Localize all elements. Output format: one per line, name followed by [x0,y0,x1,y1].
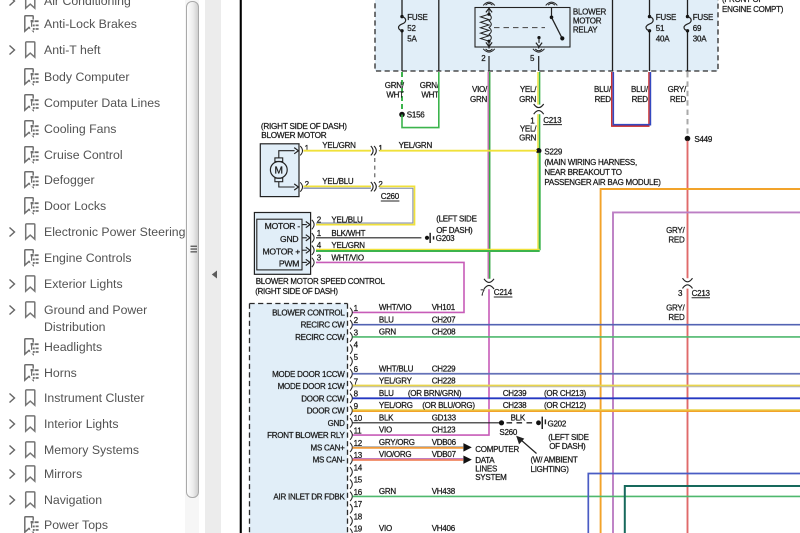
svg-text:1: 1 [354,304,359,313]
svg-text:(LEFT SIDE: (LEFT SIDE [436,215,476,224]
svg-text:BLK: BLK [511,414,526,423]
svg-text:GND: GND [280,234,298,244]
svg-text:CH208: CH208 [432,328,456,337]
svg-text:17: 17 [354,500,363,509]
wire GRN row16 (VH438) [353,495,800,497]
svg-text:FUSE: FUSE [656,13,676,22]
svg-text:NEAR BREAKOUT TO: NEAR BREAKOUT TO [544,168,621,177]
wire YEL/GRN from relay pin5 (dual) [537,72,539,105]
svg-text:WHT/VIO: WHT/VIO [379,303,411,312]
wire GRN/WHT dashed drop to S156 [401,72,403,112]
svg-text:VIO: VIO [379,426,392,435]
svg-text:CH207: CH207 [432,315,456,324]
relay pin 3 connector arcs (top) [546,2,558,5]
svg-text:40A: 40A [656,35,670,44]
svg-text:MS CAN-: MS CAN- [313,456,346,465]
svg-text:14: 14 [354,463,363,472]
ground G202 [536,420,541,425]
svg-text:(RIGHT SIDE OF DASH): (RIGHT SIDE OF DASH) [255,287,338,296]
svg-text:2: 2 [354,316,359,325]
svg-text:(LEFT SIDE: (LEFT SIDE [548,433,588,442]
motor symbol M [270,162,287,179]
svg-text:MOTOR +: MOTOR + [263,246,301,256]
svg-text:RED: RED [668,313,685,322]
blower control pin 14 arc [350,467,352,476]
svg-text:WHT: WHT [386,91,404,100]
svg-text:MODE DOOR 1CW: MODE DOOR 1CW [278,382,346,391]
wire GRY/ORG row12 (VDB06) [353,445,464,447]
svg-text:G202: G202 [548,420,567,429]
wire WHT/BLU row6 (CH229) [353,373,800,375]
wire YEL/GRN motor pin1 to C260 [303,150,371,152]
svg-text:GRY/ORG: GRY/ORG [379,438,415,447]
svg-text:FUSE: FUSE [407,13,427,22]
svg-text:MOTOR: MOTOR [573,17,602,26]
relay switch common from pin 3 [551,8,553,18]
svg-text:LIGHTING): LIGHTING) [531,465,570,474]
wire BLU row2 (CH207) [353,324,800,326]
wire relay pin2 stub (black, in fusebox) [488,47,490,49]
svg-text:YEL/BLU: YEL/BLU [331,216,363,225]
motor pin 2 arrow and arc [294,184,298,190]
svg-text:GRN: GRN [519,95,537,104]
blower motor box [260,144,299,197]
svg-text:CH238: CH238 [503,401,527,410]
panel collapse gutter [205,0,221,533]
wire BLU L-path bottom right [588,474,800,533]
svg-text:69: 69 [693,24,702,33]
blower control pin 15 arc [350,479,352,488]
wire YEL/GRY row7 (CH228) [353,385,800,387]
svg-text:15: 15 [354,476,363,485]
motor internal wiring to pins [279,151,295,158]
relay pin 5 connector arcs (bottom) [533,49,545,52]
splice S156 [399,112,405,118]
svg-text:GRY/: GRY/ [668,85,687,94]
blower control pin 2 arc [350,320,352,329]
connector C260 pin 2 [371,182,373,191]
blower control dashed border [250,303,348,305]
svg-text:YEL/GRN: YEL/GRN [322,141,356,150]
svg-text:C260: C260 [381,192,400,201]
svg-text:RED: RED [670,95,687,104]
svg-text:FRONT BLOWER RLY: FRONT BLOWER RLY [267,431,345,440]
blower control pin 18 arc [350,516,352,525]
wire YEL/GRN S229 down to speed control pin4 [537,153,539,250]
svg-text:S229: S229 [544,148,562,157]
svg-text:BLU: BLU [379,389,394,398]
svg-text:MS CAN+: MS CAN+ [311,443,346,452]
blower control pin 19 arc [350,529,352,533]
svg-text:3: 3 [354,328,359,337]
sidebar navigation panel [0,0,186,533]
relay pin 1 connector arcs (top) [483,2,495,5]
wire YEL/BLU C260 loop to speed control pin2 [316,186,415,224]
wire VIO/GRN from relay pin2 (dual) [487,72,489,279]
wire VIO/ORG row13 (VDB07) [353,458,464,460]
wire GRY/RED solid down to C213 pin3 [687,141,689,278]
svg-text:GRN: GRN [519,134,537,143]
relay actuation dashed link [494,27,545,29]
wire TEAL L-path bottom right [625,486,800,533]
relay coil arrow to pin 2 (down) [488,41,490,45]
svg-text:(OR BRN/GRN): (OR BRN/GRN) [408,389,462,398]
svg-text:(RIGHT SIDE OF DASH): (RIGHT SIDE OF DASH) [261,122,347,131]
svg-text:BLU/: BLU/ [631,85,649,94]
svg-text:VH406: VH406 [432,524,456,533]
svg-text:OF DASH): OF DASH) [549,442,586,451]
svg-text:18: 18 [354,512,363,521]
svg-text:MOTOR -: MOTOR - [265,221,301,231]
blower control pin 13 arc [350,455,352,464]
svg-text:RED: RED [595,95,612,104]
svg-text:BLOWER: BLOWER [573,8,607,17]
wire BLK row10 (GD133) to S260 [353,422,500,424]
svg-text:VH438: VH438 [432,487,456,496]
svg-text:10: 10 [354,414,363,423]
blower control pin 10 arc [350,418,352,427]
splice S260 [499,420,504,425]
svg-text:MODE DOOR 1CCW: MODE DOOR 1CCW [272,370,345,379]
blower control pin 1 arc [350,308,352,317]
svg-text:16: 16 [354,488,363,497]
svg-text:VDB07: VDB07 [432,450,457,459]
wire VIO C214 down to blower control pin11 [353,289,490,435]
connector C214 (inline) [484,279,494,283]
svg-text:5A: 5A [407,35,417,44]
svg-text:7: 7 [480,288,485,297]
collapse arrow [211,270,218,279]
wire YEL/GRN C260 to S229 [379,150,537,152]
blower control pin 16 arc [350,492,352,501]
computer data lines arrow row12 [463,443,471,451]
svg-text:DOOR CW: DOOR CW [307,407,346,416]
svg-text:VIO: VIO [379,524,392,533]
svg-text:YEL/GRN: YEL/GRN [399,141,433,150]
svg-text:C214: C214 [494,288,513,297]
relay coil (zigzag + scallops) [481,14,490,41]
wire YEL/GRN between C213 and S229 [537,114,539,149]
svg-text:52: 52 [407,24,416,33]
svg-text:PWM: PWM [279,258,299,268]
svg-text:2: 2 [378,180,383,189]
wire GRY/RED feed of fuse69 (black in fusebox) [687,0,689,17]
svg-text:GD133: GD133 [432,413,457,422]
svg-text:RECIRC CCW: RECIRC CCW [295,333,345,342]
svg-text:S449: S449 [694,135,712,144]
wire VIO (plum) horizontal from right edge [613,212,800,533]
svg-text:BLU: BLU [379,315,394,324]
svg-text:5: 5 [354,353,359,362]
svg-text:GRN: GRN [379,487,397,496]
svg-text:S156: S156 [407,111,425,120]
svg-text:AIR INLET DR FDBK: AIR INLET DR FDBK [273,492,345,501]
wire GRN/WHT loop S156 to fusebox [402,72,439,128]
svg-text:GRN: GRN [379,328,397,337]
svg-text:4: 4 [354,341,359,350]
C260 dashed divider [374,158,376,180]
svg-text:WHT: WHT [421,91,439,100]
wire WHT/VIO speed control pin3 loop to blower control pin1 [316,262,464,312]
svg-text:VDB06: VDB06 [432,438,457,447]
blower motor speed control outer box [254,213,310,275]
scrollbar track [185,0,199,533]
relay switch output contact arrow to pin 5 [537,36,540,39]
svg-text:BLOWER CONTROL: BLOWER CONTROL [272,308,345,317]
scrollbar grip [190,245,198,254]
svg-text:YEL/: YEL/ [520,124,537,133]
svg-text:BLOWER MOTOR SPEED CONTROL: BLOWER MOTOR SPEED CONTROL [256,277,386,286]
svg-text:YEL/ORG: YEL/ORG [379,401,413,410]
svg-text:C213: C213 [692,289,711,298]
wire fuse52 feed (black, in fusebox) [401,0,403,17]
relay coil arrow to pin 1 (up) [488,9,490,14]
wire BLU/RED 1 (black in fusebox) [612,0,614,71]
wire ORG horizontal from right edge [601,189,800,533]
wire GRY/RED dashed (not used option) [687,72,689,136]
svg-text:GRY/: GRY/ [666,303,685,312]
svg-text:SYSTEM: SYSTEM [475,473,507,482]
svg-text:GRN/: GRN/ [385,81,405,90]
connector C213 pin3 (inline) [683,278,693,282]
svg-text:(FRONT OF: (FRONT OF [722,0,764,4]
relay pin 2 connector arcs (bottom) [483,49,495,52]
wire BLK/WHT to ground G203 [316,237,421,239]
svg-text:WHT/BLU: WHT/BLU [379,364,414,373]
svg-text:(MAIN WIRING HARNESS,: (MAIN WIRING HARNESS, [544,158,637,167]
wire YEL/BLU motor pin2 to C260 [303,185,371,187]
wire relay pin5 stub (black, in fusebox) [538,47,540,49]
svg-text:BLK: BLK [379,413,394,422]
svg-text:YEL/GRN: YEL/GRN [331,241,365,250]
svg-text:30A: 30A [693,35,707,44]
svg-text:YEL/GRY: YEL/GRY [379,377,413,386]
svg-text:GRY/: GRY/ [666,226,685,235]
svg-text:CH123: CH123 [432,426,456,435]
svg-text:RED: RED [632,95,649,104]
blower control pin 6 arc [350,369,352,378]
blower control pin 17 arc [350,504,352,513]
svg-text:VH101: VH101 [432,303,456,312]
svg-text:OF DASH): OF DASH) [436,226,473,235]
svg-text:GRN: GRN [470,95,488,104]
wire BLU/RED U-loop below fusebox [612,72,649,126]
blower control pin 8 arc [350,394,352,403]
computer data lines arrow row13 [463,455,471,463]
wire BLU/RED 2 feed of fuse51 (black in fusebox) [649,0,651,17]
svg-text:YEL/BLU: YEL/BLU [322,177,354,186]
fuse F69 [686,15,689,18]
svg-text:VIO/ORG: VIO/ORG [379,450,412,459]
svg-text:11: 11 [354,427,363,436]
svg-text:M: M [275,165,284,176]
svg-text:BLOWER MOTOR: BLOWER MOTOR [261,131,326,140]
splice S229 [536,148,542,154]
speed control inner box [257,219,302,270]
blower control pin 4 arc [350,345,352,354]
svg-text:1: 1 [317,229,322,238]
blower control pin 9 arc [350,406,352,415]
wire BLU row8 (CH239) [353,397,800,399]
svg-text:3: 3 [678,289,683,298]
wire GRN/WHT solid (in fusebox, black) [438,0,440,71]
svg-text:WHT/VIO: WHT/VIO [331,253,363,262]
svg-text:RED: RED [668,235,685,244]
splice S449 [685,136,691,142]
svg-text:GND: GND [328,419,346,428]
wire GRN row3 (CH208) [353,336,800,338]
svg-text:(OR CH213): (OR CH213) [544,389,587,398]
svg-text:G203: G203 [436,234,455,243]
fuse F51 [648,15,651,18]
speed control pin arrows [302,224,307,226]
svg-text:COMPUTER: COMPUTER [475,445,519,454]
blower control pin 12 arc [350,443,352,452]
svg-text:3: 3 [317,253,322,262]
relay switch blade [552,17,563,38]
svg-text:RELAY: RELAY [573,26,598,35]
svg-text:S260: S260 [499,428,517,437]
svg-text:FUSE: FUSE [693,13,713,22]
svg-text:CH229: CH229 [432,364,456,373]
fuse box dashed border [375,0,718,71]
svg-text:ENGINE COMPT): ENGINE COMPT) [722,5,784,14]
scrollbar thumb [186,1,199,498]
svg-text:BLU/: BLU/ [594,85,612,94]
blower control connector box fill [250,304,348,533]
svg-text:CH228: CH228 [432,377,456,386]
svg-text:DOOR CCW: DOOR CCW [301,394,345,403]
svg-text:GRN/: GRN/ [420,81,440,90]
arrow from note to S260 [521,440,537,454]
svg-text:19: 19 [354,525,363,533]
wire GRY/RED below C213 to bottom [687,289,689,533]
svg-text:(OR CH212): (OR CH212) [544,401,587,410]
svg-text:51: 51 [656,24,665,33]
svg-text:RECIRC CW: RECIRC CW [301,321,346,330]
motor pin 1 arrow and arc [294,148,298,154]
blower control pin 11 arc [350,430,352,439]
blower control pin 7 arc [350,381,352,390]
wire BLK dashed S260 to G202 [507,422,535,424]
svg-text:(W/ AMBIENT: (W/ AMBIENT [531,456,578,465]
connector C260 pin 1 [371,146,373,155]
svg-text:YEL/: YEL/ [520,85,537,94]
fuse box (engine compartment) fill [375,0,718,71]
svg-text:VIO/: VIO/ [472,85,488,94]
ground G203 [425,236,429,240]
diagram page left border [240,0,242,533]
blower control pin 5 arc [350,357,352,366]
svg-text:PASSENGER AIR BAG MODULE): PASSENGER AIR BAG MODULE) [544,178,661,187]
blower motor relay box [475,8,570,48]
svg-text:6: 6 [354,365,359,374]
fuse F52 [400,15,403,18]
svg-text:(OR BLU/ORG): (OR BLU/ORG) [422,401,475,410]
svg-text:BLK/WHT: BLK/WHT [331,229,365,238]
connector C213 pin1 (inline) [534,104,544,108]
blower control pin 3 arc [350,332,352,341]
wire YEL/ORG row9 (CH238) [353,409,800,411]
svg-text:C213: C213 [543,116,562,125]
svg-text:CH239: CH239 [503,389,527,398]
